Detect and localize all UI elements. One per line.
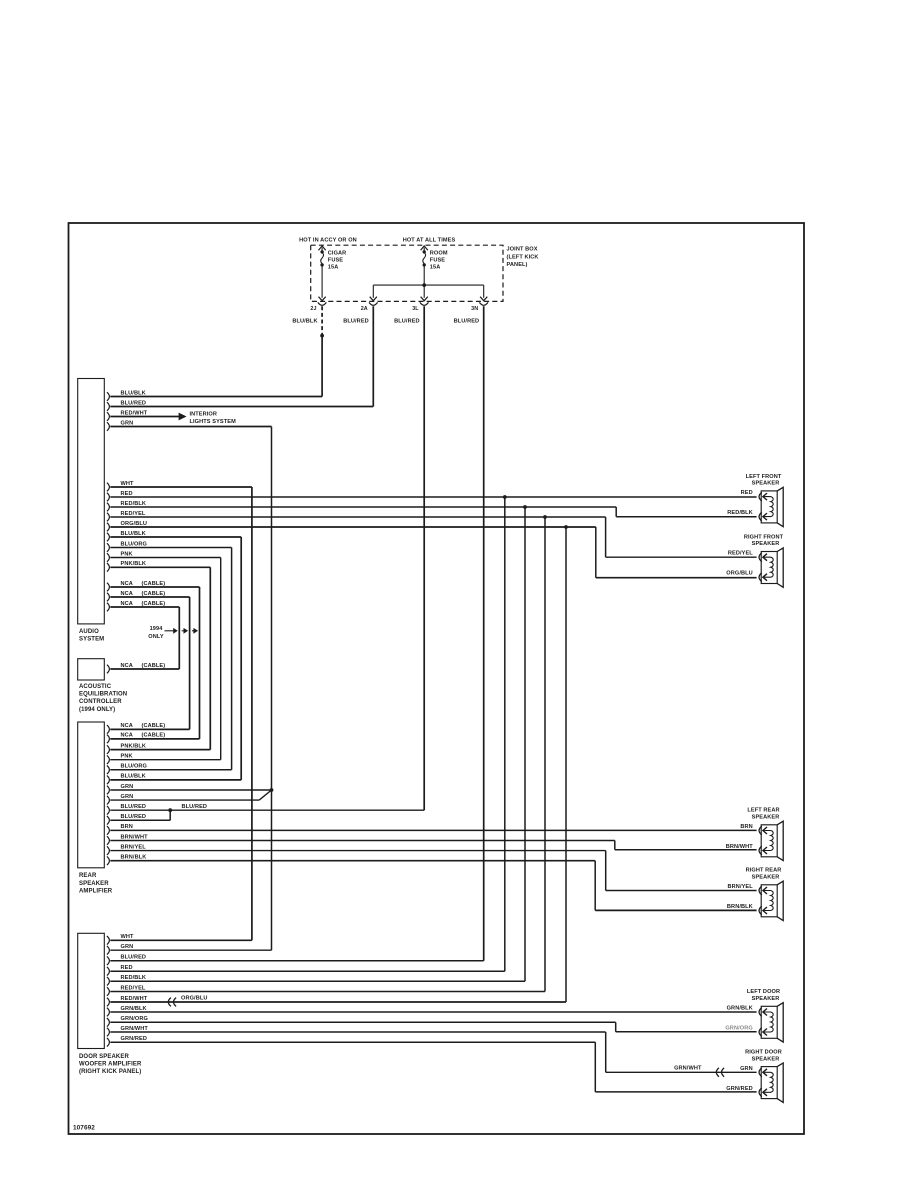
svg-text:GRN: GRN <box>740 1066 753 1072</box>
svg-text:NCA: NCA <box>121 601 133 607</box>
svg-text:BLU/RED: BLU/RED <box>394 318 420 324</box>
svg-text:FUSE: FUSE <box>328 258 343 264</box>
svg-text:HOT AT ALL TIMES: HOT AT ALL TIMES <box>403 238 456 244</box>
svg-text:(1994 ONLY): (1994 ONLY) <box>79 707 115 713</box>
svg-text:RED/BLK: RED/BLK <box>727 510 753 516</box>
svg-text:RED/YEL: RED/YEL <box>121 985 146 991</box>
svg-text:GRN: GRN <box>121 784 134 790</box>
svg-text:GRN: GRN <box>121 794 134 800</box>
svg-text:WHT: WHT <box>121 934 135 940</box>
svg-text:SPEAKER: SPEAKER <box>752 481 780 487</box>
svg-text:107692: 107692 <box>73 1125 95 1132</box>
svg-text:RED/BLK: RED/BLK <box>121 501 147 507</box>
svg-text:WHT: WHT <box>121 481 135 487</box>
svg-text:RED/WHT: RED/WHT <box>121 410 148 416</box>
svg-text:1994: 1994 <box>150 626 164 632</box>
svg-text:ACOUSTIC: ACOUSTIC <box>79 684 112 690</box>
svg-text:(CABLE): (CABLE) <box>142 601 166 607</box>
svg-text:BRN/YEL: BRN/YEL <box>121 844 147 850</box>
svg-text:GRN/WHT: GRN/WHT <box>674 1066 702 1072</box>
svg-text:FUSE: FUSE <box>430 258 445 264</box>
svg-text:GRN/RED: GRN/RED <box>121 1036 148 1042</box>
svg-text:GRN: GRN <box>121 420 134 426</box>
svg-text:RED/BLK: RED/BLK <box>121 975 147 981</box>
svg-text:LEFT DOOR: LEFT DOOR <box>747 989 780 995</box>
svg-text:ROOM: ROOM <box>430 250 448 256</box>
svg-text:SPEAKER: SPEAKER <box>752 1056 780 1062</box>
svg-text:3L: 3L <box>412 306 419 312</box>
svg-text:SPEAKER: SPEAKER <box>79 881 109 887</box>
svg-text:RIGHT FRONT: RIGHT FRONT <box>744 534 784 540</box>
svg-text:(CABLE): (CABLE) <box>142 591 166 597</box>
svg-text:PANEL): PANEL) <box>507 262 528 268</box>
svg-text:BLU/BLK: BLU/BLK <box>292 318 317 324</box>
svg-text:AUDIO: AUDIO <box>79 629 99 635</box>
svg-text:LIGHTS SYSTEM: LIGHTS SYSTEM <box>190 419 237 425</box>
svg-text:REAR: REAR <box>79 873 97 879</box>
svg-text:NCA: NCA <box>121 581 133 587</box>
svg-text:NCA: NCA <box>121 663 133 669</box>
svg-text:BLU/RED: BLU/RED <box>182 804 208 810</box>
svg-text:ORG/BLU: ORG/BLU <box>726 571 753 577</box>
svg-text:BRN/BLK: BRN/BLK <box>121 855 147 861</box>
svg-text:BRN/YEL: BRN/YEL <box>728 884 754 890</box>
svg-text:BRN: BRN <box>121 824 133 830</box>
svg-text:HOT IN ACCY OR ON: HOT IN ACCY OR ON <box>299 238 357 244</box>
svg-text:RED/WHT: RED/WHT <box>121 996 148 1002</box>
svg-text:GRN/BLK: GRN/BLK <box>121 1006 147 1012</box>
svg-text:PNK/BLK: PNK/BLK <box>121 743 147 749</box>
svg-text:SYSTEM: SYSTEM <box>79 637 104 643</box>
svg-text:CONTROLLER: CONTROLLER <box>79 699 122 705</box>
svg-text:BRN/WHT: BRN/WHT <box>726 844 754 850</box>
svg-text:2A: 2A <box>361 306 368 312</box>
svg-text:BLU/RED: BLU/RED <box>343 318 369 324</box>
svg-text:INTERIOR: INTERIOR <box>190 411 218 417</box>
svg-text:BLU/BLK: BLU/BLK <box>121 390 146 396</box>
svg-text:BLU/ORG: BLU/ORG <box>121 764 148 770</box>
svg-text:SPEAKER: SPEAKER <box>752 541 780 547</box>
svg-text:BRN: BRN <box>740 824 752 830</box>
svg-text:PNK/BLK: PNK/BLK <box>121 561 147 567</box>
svg-text:BLU/BLK: BLU/BLK <box>121 774 146 780</box>
svg-text:15A: 15A <box>430 265 441 271</box>
svg-text:GRN/ORG: GRN/ORG <box>725 1026 752 1032</box>
svg-text:GRN/RED: GRN/RED <box>726 1086 753 1092</box>
svg-text:SPEAKER: SPEAKER <box>752 996 780 1002</box>
svg-text:DOOR SPEAKER: DOOR SPEAKER <box>79 1054 129 1060</box>
svg-text:ONLY: ONLY <box>148 634 164 640</box>
svg-text:3N: 3N <box>471 306 478 312</box>
svg-text:GRN: GRN <box>121 944 134 950</box>
svg-text:ORG/BLU: ORG/BLU <box>121 521 148 527</box>
svg-text:BLU/RED: BLU/RED <box>121 814 147 820</box>
svg-text:NCA: NCA <box>121 733 133 739</box>
svg-text:BLU/RED: BLU/RED <box>121 400 147 406</box>
svg-text:CIGAR: CIGAR <box>328 250 347 256</box>
svg-text:LEFT FRONT: LEFT FRONT <box>746 474 782 480</box>
svg-text:BLU/ORG: BLU/ORG <box>121 541 148 547</box>
svg-text:RIGHT DOOR: RIGHT DOOR <box>745 1050 782 1056</box>
svg-text:WOOFER AMPLIFIER: WOOFER AMPLIFIER <box>79 1062 142 1068</box>
svg-text:PNK: PNK <box>121 754 133 760</box>
svg-text:PNK: PNK <box>121 551 133 557</box>
svg-text:LEFT REAR: LEFT REAR <box>747 808 779 814</box>
svg-text:(CABLE): (CABLE) <box>142 663 166 669</box>
svg-text:2J: 2J <box>310 306 316 312</box>
svg-text:(RIGHT KICK PANEL): (RIGHT KICK PANEL) <box>79 1069 141 1075</box>
svg-text:15A: 15A <box>328 265 339 271</box>
svg-text:(CABLE): (CABLE) <box>142 581 166 587</box>
svg-text:JOINT BOX: JOINT BOX <box>507 247 538 253</box>
svg-text:RED: RED <box>741 490 753 496</box>
svg-text:BLU/BLK: BLU/BLK <box>121 531 146 537</box>
svg-text:BRN/BLK: BRN/BLK <box>727 904 753 910</box>
svg-text:AMPLIFIER: AMPLIFIER <box>79 888 113 894</box>
svg-text:GRN/BLK: GRN/BLK <box>727 1006 753 1012</box>
svg-text:RED/YEL: RED/YEL <box>728 551 753 557</box>
svg-text:(CABLE): (CABLE) <box>142 733 166 739</box>
svg-text:SPEAKER: SPEAKER <box>752 815 780 821</box>
svg-text:BLU/RED: BLU/RED <box>121 804 147 810</box>
svg-text:RED: RED <box>121 965 133 971</box>
svg-text:GRN/WHT: GRN/WHT <box>121 1026 149 1032</box>
svg-text:RED/YEL: RED/YEL <box>121 511 146 517</box>
svg-text:NCA: NCA <box>121 723 133 729</box>
svg-text:ORG/BLU: ORG/BLU <box>181 995 208 1001</box>
svg-text:RIGHT REAR: RIGHT REAR <box>746 868 782 874</box>
svg-text:SPEAKER: SPEAKER <box>752 875 780 881</box>
svg-text:BRN/WHT: BRN/WHT <box>121 834 149 840</box>
svg-text:(LEFT KICK: (LEFT KICK <box>507 254 539 260</box>
svg-text:EQUILIBRATION: EQUILIBRATION <box>79 692 127 698</box>
svg-text:BLU/RED: BLU/RED <box>454 318 480 324</box>
svg-text:GRN/ORG: GRN/ORG <box>121 1016 148 1022</box>
svg-text:RED: RED <box>121 491 133 497</box>
svg-text:(CABLE): (CABLE) <box>142 723 166 729</box>
svg-text:BLU/RED: BLU/RED <box>121 955 147 961</box>
svg-text:NCA: NCA <box>121 591 133 597</box>
